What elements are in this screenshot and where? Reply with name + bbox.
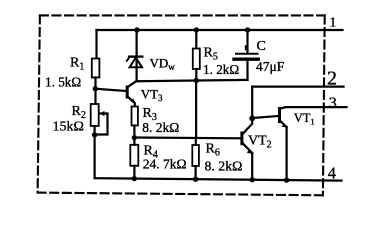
resistor R1 <box>92 59 100 78</box>
wire: pin 2 line <box>252 85 343 87</box>
VT2 emitter arrow <box>247 149 253 154</box>
node: R5 bottom junction <box>194 78 199 83</box>
wire: mid node line to VT2 base <box>134 136 240 139</box>
svg-text:R6: R6 <box>206 142 220 159</box>
transistor VT3 base bar <box>126 86 129 99</box>
resistor R3 <box>132 107 138 126</box>
wire: R2 bottom lead <box>93 126 95 135</box>
wire: VDw lead (through symbol) <box>136 30 138 81</box>
node: VT2 emitter on bottom rail <box>250 177 255 182</box>
zener VDw left wing <box>127 57 129 61</box>
node: zener top junction on rail <box>134 27 139 32</box>
svg-text:4: 4 <box>328 163 336 182</box>
svg-text:47μF: 47μF <box>256 59 285 74</box>
wire: VT1 emitter drop to rail <box>286 127 288 180</box>
svg-text:2: 2 <box>327 68 337 90</box>
node: R4 on bottom rail <box>132 176 137 181</box>
svg-text:C: C <box>257 39 266 54</box>
wire: drop from R5-bottom node to mid node line / R6 <box>195 81 197 138</box>
wire: R1 bottom to R2 top <box>94 78 96 105</box>
wire: VT3 base wire <box>95 89 126 91</box>
resistor R5 <box>193 49 200 70</box>
wire: VT2 emitter angle <box>243 144 252 153</box>
svg-text:VT2: VT2 <box>248 134 272 151</box>
capacitor C top plate <box>236 53 258 55</box>
svg-text:VT1: VT1 <box>294 111 315 127</box>
node: C top on rail <box>245 27 250 32</box>
node: R2 bottom junction <box>92 132 97 137</box>
wire: R5 top lead <box>195 30 197 49</box>
svg-text:1. 2kΩ: 1. 2kΩ <box>203 62 239 77</box>
wire: pin 3 line <box>286 106 347 108</box>
wire: node line VT3-collector to R5/C bottoms <box>137 80 248 81</box>
wire: C top lead <box>246 30 248 54</box>
node: R6 on bottom rail <box>193 177 198 182</box>
wire: VT3 collector angle <box>129 81 137 87</box>
svg-text:8. 2kΩ: 8. 2kΩ <box>205 159 243 174</box>
capacitor C bottom plate (thick) <box>234 58 258 61</box>
svg-text:VDw: VDw <box>150 56 176 73</box>
wire: VT2 collector vertical + angle <box>243 118 252 133</box>
node: VT1 emitter on bottom rail <box>284 177 289 182</box>
wire: R3 bottom lead <box>133 126 135 138</box>
VT3 emitter arrow <box>131 99 136 104</box>
svg-text:1. 5kΩ: 1. 5kΩ <box>45 75 81 90</box>
VT1 emitter arrow <box>282 123 288 128</box>
svg-text:15kΩ: 15kΩ <box>53 120 84 135</box>
wire: top rail (pin 1 net) <box>97 29 343 31</box>
node A: R1/R2/VT3-base junction <box>93 86 98 91</box>
wire: pin 2 branch from VT2 collector <box>251 87 253 119</box>
wire: VT1 emitter angle <box>281 122 287 128</box>
wire: R4 top lead <box>133 138 135 145</box>
wire: VT1 base wire <box>252 116 278 118</box>
zener diode VDw triangle <box>130 58 142 68</box>
wire: bottom rail (pin 4 net) <box>95 178 342 180</box>
R2 wiper arrowhead <box>99 111 105 116</box>
svg-text:8. 2kΩ: 8. 2kΩ <box>142 120 179 135</box>
node: VT2 collector / VT1 base junction <box>249 115 255 121</box>
wire: VT1 collector angle to pin 3 <box>281 107 286 108</box>
svg-text:24. 7kΩ: 24. 7kΩ <box>143 157 187 172</box>
resistor R2 (rheostat body) <box>91 104 99 126</box>
node: R5 top on rail <box>194 27 199 32</box>
svg-text:R1: R1 <box>70 56 84 73</box>
transistor VT1 base bar <box>278 107 281 123</box>
wire: C bottom lead <box>246 61 248 80</box>
capacitor C polarity tick <box>245 46 247 50</box>
wire: R5 bottom lead <box>195 69 197 81</box>
svg-text:3: 3 <box>329 95 337 112</box>
wire: R6 bottom lead <box>195 166 197 179</box>
svg-text:R5: R5 <box>204 46 218 63</box>
wire: R2 wiper loop to bottom terminal <box>95 114 108 135</box>
resistor R6 <box>192 145 199 166</box>
wire: VT3 emitter angle <box>129 98 135 107</box>
svg-text:R2: R2 <box>72 104 86 121</box>
wire: R1 top lead <box>95 30 97 59</box>
wire: left drop to bottom rail <box>93 135 95 178</box>
wire: VT2 emitter drop to rail <box>251 153 253 180</box>
wire: R6 top lead <box>195 138 197 145</box>
node: R3/R4 junction <box>132 135 137 140</box>
zener diode VDw cathode bar <box>129 55 142 57</box>
transistor VT2 base bar <box>240 132 243 146</box>
svg-text:VT3: VT3 <box>141 87 163 104</box>
IC boundary dashed box <box>38 15 325 195</box>
wire: R4 bottom lead <box>133 166 135 179</box>
resistor R4 <box>130 145 138 166</box>
svg-text:1: 1 <box>330 14 337 29</box>
